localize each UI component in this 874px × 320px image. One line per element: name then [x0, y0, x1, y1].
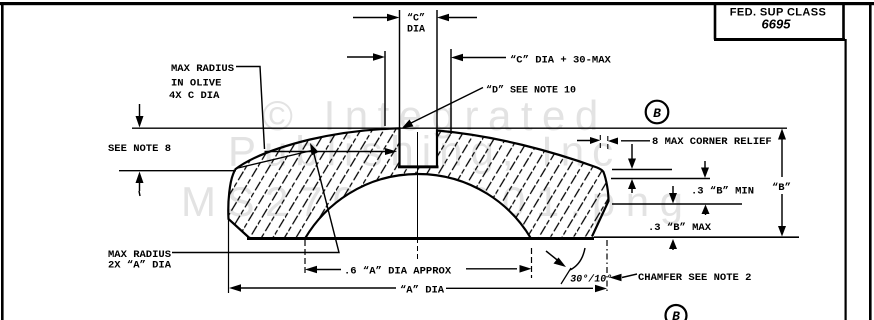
B overall dimension [778, 129, 786, 237]
C DIA dimension arrows [353, 14, 477, 22]
.6 A DIA right extension line [531, 248, 533, 278]
ref line left tip (y=170.7) [119, 170, 236, 172]
leader from D SEE NOTE 10 to notch corner [402, 88, 483, 129]
leader from MAX RADIUS IN OLIVE to notch [236, 67, 397, 156]
title block text FED. SUP CLASS [730, 7, 826, 19]
corner relief mini horizontal dimension [577, 135, 650, 152]
corner relief sliver line (left) [238, 150, 316, 169]
corner relief vertical dimension arrows at x=632 [628, 144, 636, 193]
watermark line 1 [262, 92, 608, 139]
svg-text:“B”: “B” [772, 182, 791, 194]
D SEE NOTE 10 label [486, 85, 576, 97]
A DIA left extension line [228, 219, 230, 293]
C DIA + 30 MAX text [510, 55, 612, 67]
A DIA right extension line (dash-dot) [606, 240, 608, 294]
inner bore (hollow) white [305, 174, 531, 239]
svg-text:B: B [653, 106, 661, 121]
datum circle B bottom [666, 305, 687, 320]
title block text 6695 [762, 17, 792, 32]
svg-text:“D” SEE NOTE 10: “D” SEE NOTE 10 [486, 85, 576, 97]
notch bottom thick edge [398, 166, 439, 169]
ref line top tangent (y=128) [132, 127, 787, 129]
outer section outline [228, 128, 608, 238]
SEE NOTE 8 dim arrows [136, 104, 144, 196]
.3 B MAX text [648, 222, 712, 234]
ref line corner relief bottom (y=178.5) [611, 178, 710, 180]
C DIA text [407, 13, 425, 36]
A DIA dimension [229, 284, 607, 292]
C DIA + 30 MAX dimension arrows [347, 53, 506, 61]
border left [1, 2, 4, 320]
ref line corner relief top (y=169.5) [612, 169, 672, 171]
watermark line 3 [181, 178, 693, 225]
svg-text:6695: 6695 [762, 17, 792, 32]
svg-text:SEE NOTE 8: SEE NOTE 8 [108, 143, 171, 155]
chamfer angle leader with arrow [546, 251, 566, 267]
svg-text:.3 “B” MIN: .3 “B” MIN [691, 186, 754, 198]
ref line B min (y=204) [612, 203, 742, 205]
MAX RADIUS IN OLIVE 4X C DIA label [169, 63, 234, 102]
svg-text:IN OLIVE: IN OLIVE [171, 78, 221, 90]
section body hatched fill [228, 128, 608, 238]
svg-text:MAX RADIUS: MAX RADIUS [171, 63, 234, 75]
border top [0, 2, 874, 5]
.6 A DIA left extension line [304, 240, 306, 276]
.3 B MIN dimension arrows [701, 161, 710, 215]
leader from CHAMFER to corner [610, 274, 638, 282]
svg-text:30°/10°: 30°/10° [569, 274, 613, 286]
svg-text:DIA: DIA [407, 25, 425, 36]
centerline below notch [417, 132, 419, 262]
watermark line 2 [228, 128, 621, 175]
svg-text:2X “A” DIA: 2X “A” DIA [108, 260, 172, 272]
30/10 text with slash [561, 268, 613, 285]
svg-text:“C” DIA + 30-MAX: “C” DIA + 30-MAX [510, 55, 612, 67]
svg-text:B: B [672, 309, 680, 320]
.3 B MAX dimension arrows [669, 186, 677, 250]
svg-text:CHAMFER SEE NOTE 2: CHAMFER SEE NOTE 2 [638, 272, 751, 284]
svg-text:“A” DIA: “A” DIA [400, 285, 445, 297]
.3 B MIN text [691, 186, 754, 198]
.6 A DIA APPROX text [344, 266, 452, 278]
svg-text:8 MAX CORNER RELIEF: 8 MAX CORNER RELIEF [652, 136, 772, 148]
8 MAX CORNER RELIEF text [652, 136, 772, 148]
ref line bottom right extension (y=237.5) [594, 236, 799, 238]
datum circle B top [646, 101, 669, 124]
chamfer angle arc [570, 248, 585, 270]
border right [869, 2, 872, 320]
svg-text:“C”: “C” [407, 13, 425, 25]
CHAMFER SEE NOTE 2 label [638, 272, 751, 284]
title block vertical rule below box [845, 39, 847, 320]
MAX RADIUS 2X A DIA label [108, 249, 172, 272]
leader from MAX RADIUS 2X A DIA to dome slope [172, 143, 339, 253]
inner arc outline [305, 174, 531, 239]
svg-text:4X C DIA: 4X C DIA [169, 90, 220, 102]
C DIA + 30 MAX extension lines [385, 49, 451, 134]
bottom edge thick line [247, 237, 594, 240]
A DIA text [400, 285, 445, 297]
svg-text:.6 “A” DIA APPROX: .6 “A” DIA APPROX [344, 266, 452, 278]
.6 A DIA APPROX dimension [305, 265, 532, 273]
svg-text:.3 “B” MAX: .3 “B” MAX [648, 222, 712, 234]
title block box FED SUP CLASS [714, 4, 845, 41]
C DIA extension lines (notch) [400, 10, 438, 130]
SEE NOTE 8 text [108, 143, 171, 155]
B text [772, 182, 791, 194]
